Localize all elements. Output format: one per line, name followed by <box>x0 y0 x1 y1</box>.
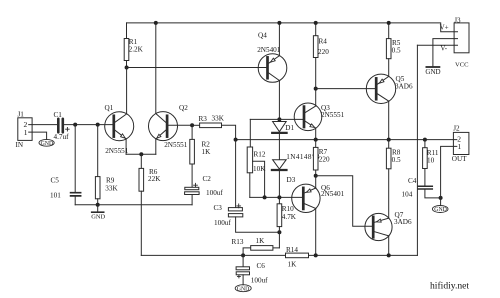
wire J2 pin1 <box>441 146 454 198</box>
wire Q2 collector to top rail <box>155 23 157 114</box>
wire C2 bottom to ground rail <box>191 195 193 205</box>
svg-text:R7: R7 <box>319 148 328 156</box>
wire C3 bottom to R10 bottom <box>236 217 280 232</box>
transistor Q7 3AD6 <box>365 211 412 240</box>
svg-text:2N5551: 2N5551 <box>164 141 188 149</box>
svg-text:33K: 33K <box>212 115 225 123</box>
svg-text:1K: 1K <box>202 148 212 156</box>
wire J3 GND pin <box>433 39 454 67</box>
svg-text:C1: C1 <box>54 111 63 119</box>
svg-text:J1: J1 <box>18 111 25 119</box>
svg-text:4.7K: 4.7K <box>282 213 297 221</box>
wire J1 pin2 to C1 <box>32 124 57 126</box>
wire R10 bottom <box>278 227 280 248</box>
diode D3 1N4148 <box>272 153 320 184</box>
wire C6 to ground <box>242 275 244 285</box>
transistor Q4 2N5401 <box>257 31 287 82</box>
wire R7 bottom <box>315 170 317 176</box>
wire R1 bottom <box>126 61 128 68</box>
V- vertical from J3 <box>416 45 418 255</box>
resistor R5 0.5 <box>386 39 401 59</box>
resistor R6 22K <box>139 168 161 191</box>
svg-text:220: 220 <box>319 156 330 164</box>
junction output / R3 / C3 <box>234 138 238 142</box>
wire Q1 collector <box>126 68 128 114</box>
svg-text:D3: D3 <box>287 176 296 184</box>
svg-text:GND: GND <box>237 286 250 292</box>
wire R8 bottom to Q7 emitter <box>388 169 390 218</box>
junction ground rail / R9 <box>96 203 100 207</box>
capacitor C5 101 <box>50 176 81 199</box>
resistor R14 1K <box>286 246 309 268</box>
ground symbol at J3 <box>425 67 440 76</box>
junction bias line / diode chain / R10 <box>277 195 281 199</box>
svg-text:100uf: 100uf <box>214 219 231 227</box>
svg-text:D1: D1 <box>285 124 294 132</box>
wire Q6 emitter <box>315 176 317 189</box>
svg-text:J2: J2 <box>453 125 460 133</box>
capacitor C4 104 <box>402 177 433 198</box>
junction C3 / R10 / R13 <box>277 230 281 234</box>
svg-text:GND: GND <box>41 141 54 147</box>
wire C3 stem from output <box>235 140 237 208</box>
junction R9 tap <box>96 123 100 127</box>
wire R4 bottom to Q3 collector <box>315 58 317 107</box>
svg-text:10: 10 <box>427 156 435 164</box>
wire J1 pin1 to ground <box>32 132 47 139</box>
V- rail left segment <box>141 254 285 256</box>
wire R6 top <box>140 154 142 168</box>
svg-text:2.2K: 2.2K <box>129 46 144 54</box>
junction Q2 base / R2 / R3 <box>190 123 194 127</box>
resistor R3 33K <box>192 115 225 128</box>
connector J2 <box>452 125 469 164</box>
svg-text:C2: C2 <box>203 175 212 183</box>
svg-text:IN: IN <box>16 141 24 149</box>
wire R1 top <box>126 23 128 39</box>
node junction R1/Q1 collector <box>125 66 129 70</box>
wire Q3 emitter <box>315 128 317 140</box>
wire R12 top <box>249 119 251 147</box>
connector J1 <box>16 111 33 150</box>
wire Q7 base route <box>316 176 372 227</box>
transistor Q6 2N5401 <box>292 184 345 212</box>
svg-text:100uf: 100uf <box>251 276 268 284</box>
transistor Q5 3AD6 <box>366 74 413 103</box>
wire R12 bottom <box>249 173 251 198</box>
wire ground stub at C4 <box>440 198 442 206</box>
svg-text:101: 101 <box>50 191 61 199</box>
wire R5 top <box>388 23 390 39</box>
capacitor C3 100uf <box>214 204 243 227</box>
wire Q4 collector down <box>278 81 280 120</box>
svg-text:J3: J3 <box>454 16 461 24</box>
svg-text:1: 1 <box>24 128 28 137</box>
wire R1 node to Q4 base <box>127 67 267 69</box>
resistor R4 220 <box>313 36 329 58</box>
wire Q2 base <box>168 124 192 126</box>
svg-text:V+: V+ <box>440 24 449 32</box>
diode D1 1N4148 <box>272 119 294 132</box>
svg-text:R4: R4 <box>319 37 328 45</box>
wire emitter tie <box>126 153 156 155</box>
junction R7 / Q6 emitter / Q7 base route <box>314 174 318 178</box>
wire C5 stem lower <box>74 197 76 205</box>
ground symbol at J1 <box>39 139 54 147</box>
junction output / R11 <box>423 138 427 142</box>
resistor R8 0.5 <box>386 140 401 169</box>
svg-text:Q2: Q2 <box>179 104 188 112</box>
svg-text:R9: R9 <box>106 177 115 185</box>
svg-text:2N5551: 2N5551 <box>321 111 345 119</box>
wire R11 bottom to C4 <box>424 169 426 186</box>
svg-text:GND: GND <box>425 68 440 76</box>
wire C6 stem <box>242 255 244 266</box>
svg-text:1: 1 <box>458 142 462 151</box>
wire R4 top <box>315 23 317 36</box>
svg-text:V-: V- <box>440 44 447 52</box>
svg-text:220: 220 <box>318 48 329 56</box>
svg-text:C4: C4 <box>408 177 417 185</box>
wire R2 top <box>191 125 193 139</box>
svg-text:R13: R13 <box>232 238 244 246</box>
svg-text:Q4: Q4 <box>258 31 267 39</box>
svg-text:2N5401: 2N5401 <box>257 46 281 54</box>
junction output / Q5 / R8 <box>387 138 391 142</box>
junction V- rail / Q7 <box>387 253 391 257</box>
junction emitters / R6 <box>139 152 143 156</box>
wire Q5 base <box>316 88 375 90</box>
connector J3 <box>440 16 470 68</box>
svg-text:C5: C5 <box>51 176 60 184</box>
wire Q7 collector to V- rail <box>388 236 390 255</box>
watermark hifidiy.net <box>430 281 469 292</box>
ground symbol below C6 <box>235 285 251 293</box>
svg-text:4.7uf: 4.7uf <box>54 133 70 141</box>
wire J3 V- pin <box>417 44 454 46</box>
wire R5 bottom to Q5 collector <box>388 59 390 77</box>
resistor R10 4.7K <box>277 197 297 226</box>
svg-text:0.5: 0.5 <box>392 156 401 164</box>
svg-text:C6: C6 <box>257 262 266 270</box>
wire R3 to output line <box>222 125 236 139</box>
wire R2 bottom to C2 <box>191 164 193 187</box>
resistor R12 10K <box>247 147 266 173</box>
transistor Q3 2N5551 <box>294 103 344 131</box>
svg-text:104: 104 <box>402 190 413 198</box>
junction node A <box>277 117 281 121</box>
resistor R11 10 <box>423 140 439 169</box>
wire C4 bottom <box>425 190 441 198</box>
capacitor C1 4.7uf <box>54 111 70 141</box>
junction V- rail / R13 / C6 <box>241 253 245 257</box>
wire Q1 emitter <box>125 139 127 154</box>
svg-text:R2: R2 <box>202 140 211 148</box>
bias line R12/R10 to Q6 base <box>250 196 302 198</box>
wire D1 to D3 <box>278 134 280 160</box>
junction top rail / R4 <box>314 21 318 25</box>
wire C5 stem upper <box>74 125 76 193</box>
node A wire R12 to Q3 base <box>250 118 302 120</box>
junction V- rail / Q6 <box>314 253 318 257</box>
capacitor C6 100uf <box>236 262 268 285</box>
wire V+ top rail <box>127 23 455 32</box>
svg-text:33K: 33K <box>105 185 118 193</box>
svg-text:100uf: 100uf <box>206 189 223 197</box>
wire Q2 emitter <box>155 139 157 154</box>
svg-text:R3: R3 <box>199 115 208 123</box>
junction output / Q3 emitter / R7 <box>314 138 318 142</box>
wire Q4 emitter to top rail <box>278 23 280 56</box>
svg-text:OUT: OUT <box>452 155 467 163</box>
svg-text:3AD6: 3AD6 <box>394 218 412 226</box>
svg-text:2N5401: 2N5401 <box>321 190 345 198</box>
ground symbol at C4/J2 <box>432 206 448 214</box>
svg-text:3AD6: 3AD6 <box>395 83 413 91</box>
output line node to J2 <box>236 139 454 141</box>
transistor Q2 2N5551 (mirrored) <box>149 104 189 149</box>
capacitor C2 100uf <box>185 175 224 197</box>
resistor R9 33K <box>95 177 118 199</box>
resistor R1 <box>124 38 143 61</box>
svg-text:R14: R14 <box>286 246 298 254</box>
svg-text:GND: GND <box>434 207 447 213</box>
ground symbol below R9 <box>91 212 105 221</box>
wire ground stub R9 <box>97 205 99 212</box>
wire Q5 emitter to output line <box>388 101 390 139</box>
left ground rail <box>75 204 192 206</box>
svg-text:22K: 22K <box>148 175 161 183</box>
svg-text:Q1: Q1 <box>105 104 114 112</box>
junction top rail / Q2 collector <box>154 21 158 25</box>
wire Q6 collector to V- rail <box>315 208 317 255</box>
transistor Q1 2N5551 <box>105 104 134 155</box>
svg-text:R12: R12 <box>254 150 266 158</box>
junction top rail / R5 <box>387 21 391 25</box>
wire C1 to Q1 base <box>64 124 113 126</box>
resistor R2 1K <box>190 139 211 164</box>
junction bias line / jog <box>263 195 267 199</box>
junction C4 / J2 pin1 ground <box>439 196 443 200</box>
resistor R13 1K <box>232 237 280 255</box>
svg-text:GND: GND <box>91 214 105 221</box>
svg-text:C3: C3 <box>214 204 223 212</box>
resistor R7 220 <box>313 140 330 170</box>
wire R12 side jog <box>253 161 265 197</box>
junction Q5 base tap <box>314 87 318 91</box>
wire D3 to bias line <box>278 171 280 197</box>
svg-text:VCC: VCC <box>455 61 469 68</box>
svg-text:2N5551: 2N5551 <box>105 147 129 155</box>
wire R6 bottom to V- rail <box>140 191 142 255</box>
svg-text:0.5: 0.5 <box>392 47 401 55</box>
V- rail right segment <box>309 254 418 256</box>
junction top rail / Q4 <box>277 21 281 25</box>
junction C5 tap <box>73 123 77 127</box>
wire R9 stem upper <box>97 125 99 177</box>
svg-text:1K: 1K <box>256 237 266 245</box>
svg-text:R10: R10 <box>282 205 294 213</box>
svg-text:hifidiy.net: hifidiy.net <box>430 281 469 292</box>
svg-text:1K: 1K <box>288 260 298 268</box>
wire R9 stem lower <box>97 199 99 205</box>
